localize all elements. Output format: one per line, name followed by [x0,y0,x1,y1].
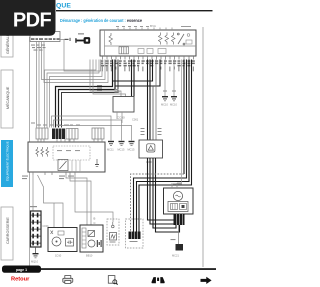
ignition pin labels [31,45,46,51]
battery label [30,206,37,207]
wire BSI to power unit C [70,175,91,225]
pager tab page 1 [2,266,41,273]
ground MC15b [128,141,135,152]
wire ignition pin 1 down [36,44,38,128]
harness bundle B wire 1 [183,60,185,175]
wire BSI to power unit B [66,175,87,225]
svg-text:C001: C001 [132,118,139,122]
power feed corner wire 1 [113,60,153,82]
ground MC11 [107,141,114,152]
wire BSI to starter A [38,175,64,228]
harness bundle A wire 3 [152,86,154,140]
svg-text:B: B [94,217,96,221]
ignition key icon [75,33,90,43]
wire to thermal switch [75,175,113,222]
harness bundle A to alternator 2 [150,158,174,224]
svg-text:1D10: 1D10 [55,254,62,258]
svg-text:MC10: MC10 [161,103,168,107]
fusebox top pin labels [116,26,191,27]
fuse F2 [159,33,163,45]
alternator top pins [172,183,177,188]
SCENE [0,0,216,287]
alternator label [173,184,182,185]
svg-text:BVA: BVA [150,24,157,28]
ground MC10b [170,91,177,107]
fuse F4 [172,33,176,45]
ignition switch CA00 [30,32,60,44]
wire dark pair to relay 2 [133,60,135,97]
search binoculars icon [152,277,165,283]
nav tab MECANIQUE [1,70,13,128]
fusebox bottom pins [103,56,194,60]
wire battery to ground [35,247,37,253]
svg-text:CC00: CC00 [117,116,125,120]
harness bundle B wire 3 [137,60,190,232]
svg-text:CARROSSERIE: CARROSSERIE [6,217,10,244]
wire relay pin down 2 [116,112,118,119]
relay CC00 [113,89,134,112]
bundle A labels [141,128,162,135]
svg-text:MQ10: MQ10 [31,260,39,264]
wire ground stub [57,126,132,141]
svg-text:C: C [94,221,96,225]
harness bundle B wire 2 [134,60,187,232]
wire to relay pin 1 [90,60,121,97]
BSI top pins [38,139,102,142]
page right border [202,27,204,267]
engine connector 1A [129,232,141,243]
next page arrow icon [201,277,212,284]
wire alternator to ground [178,225,180,244]
BSI internal ground [95,159,99,167]
BSI internal dashed block [53,146,90,160]
wire ignition box corner to fusebox [60,40,101,72]
ground MC10a [161,91,168,107]
fusebox BB00 [100,30,196,56]
BSI internal wires [72,160,80,172]
wire label [171,239,176,240]
wire BSI to battery [32,175,34,211]
fusebox bottom pin labels [101,60,195,66]
starter motor 1D10 [48,228,77,252]
engine dashed boundary left [107,219,119,245]
battery BB00 [31,211,42,247]
harness bundle A wire 4 [155,60,157,141]
svg-text:MC21: MC21 [172,254,179,258]
ground connector block [176,244,184,251]
svg-text:1300: 1300 [146,160,152,164]
ground MQ10 [31,253,39,264]
svg-text:page 1: page 1 [16,268,27,272]
wire stair 2 [47,60,99,128]
wire excitation to alternator [177,60,182,184]
harness bundle A to alternator 4 [156,158,180,232]
PDF badge [0,0,56,36]
ground MC15 [118,141,125,152]
harness bundle A to alternator 3 [153,158,176,228]
svg-text:Retour: Retour [11,277,30,283]
fusebox top pins [118,28,172,31]
BSI fuse 2 [41,147,44,157]
pager rule [41,268,216,270]
harness bundle B wire 4 [139,60,192,232]
power unit box [80,225,103,252]
power bus wire 3 [62,60,119,128]
connector labels row [31,123,80,126]
svg-text:MC15: MC15 [118,148,125,152]
harness bundle A wire 1 [147,60,149,141]
svg-text:MC10: MC10 [170,103,177,107]
header rule [56,10,213,11]
BSI fuse 1 [36,147,39,157]
wire ignition pin 4 to fusebox [44,44,108,83]
fuse block hatch [119,47,129,54]
wire to relay pin 2 [93,60,126,97]
preview icon [108,276,117,285]
warning lamp box V1300 [139,140,163,158]
wire mid horizontal 1 [52,116,112,141]
svg-text:PDF: PDF [13,10,52,32]
stair wire labels [97,85,102,91]
harness bundle A wire 2 [149,60,151,141]
BSI top connector 2 (dark) [52,129,65,140]
relay contact [177,33,185,45]
wire ignition pin 2 down [38,44,40,128]
fusebox inner marks [138,34,192,54]
svg-text:MÉCANIQUE: MÉCANIQUE [5,86,10,109]
svg-text:MC11: MC11 [107,148,114,152]
harness bundle B wire 1 shielded run [131,174,185,232]
fusebox wire code labels [102,67,194,72]
svg-text:MC15: MC15 [128,148,135,152]
BSI relay symbol [58,160,68,171]
svg-text:Démarrage : génération de cour: Démarrage : génération de courant : esse… [60,18,142,23]
printer icon [63,276,73,284]
BSI unit box [28,142,105,172]
wire relay pin down [121,112,123,123]
nav tab CARROSSERIE [1,207,13,260]
BSI top connector 3 [92,128,104,139]
BSI top connector 2b [66,129,78,140]
fuse F3 [165,33,169,45]
wire mid horizontal 2 [54,120,122,141]
svg-text:QUE: QUE [56,3,71,10]
harness bundle A to alternator 1 [148,158,174,220]
wire to ground MC10a [164,60,166,97]
fuse F1 [109,33,113,45]
BSI fuse 3 [46,147,49,157]
BSI bottom labels [22,176,74,180]
svg-text:BB10: BB10 [86,254,93,258]
nav tab GENERALITES [1,12,13,57]
alternator connector hatch [174,214,185,225]
svg-text:ÉQUIPEMENT ÉLECTRIQUE: ÉQUIPEMENT ÉLECTRIQUE [5,141,10,181]
wire stair 3 [50,60,103,128]
page left border [29,37,31,267]
power bus wire 1 [56,60,113,128]
wire dark pair to relay 1 [131,60,133,97]
power bus wire 2 [59,60,116,128]
wire ignition pin 3 to fusebox [42,44,106,80]
power feed corner wire 2 [115,60,160,87]
ignition box internal text row [31,38,60,40]
nav tab EQUIPEMENT ELECTRIQUE (active) [1,140,13,187]
wire stair 1 [45,60,97,128]
BSI bottom pins [33,172,75,175]
engine dashed boundary right [126,219,144,248]
wire to ground MC10b [173,60,175,97]
BSI top connector 1 [36,128,48,139]
wire BSI to starter B [53,203,55,228]
ignition terminal glyph [65,38,71,41]
alternator 1000 [164,188,194,214]
